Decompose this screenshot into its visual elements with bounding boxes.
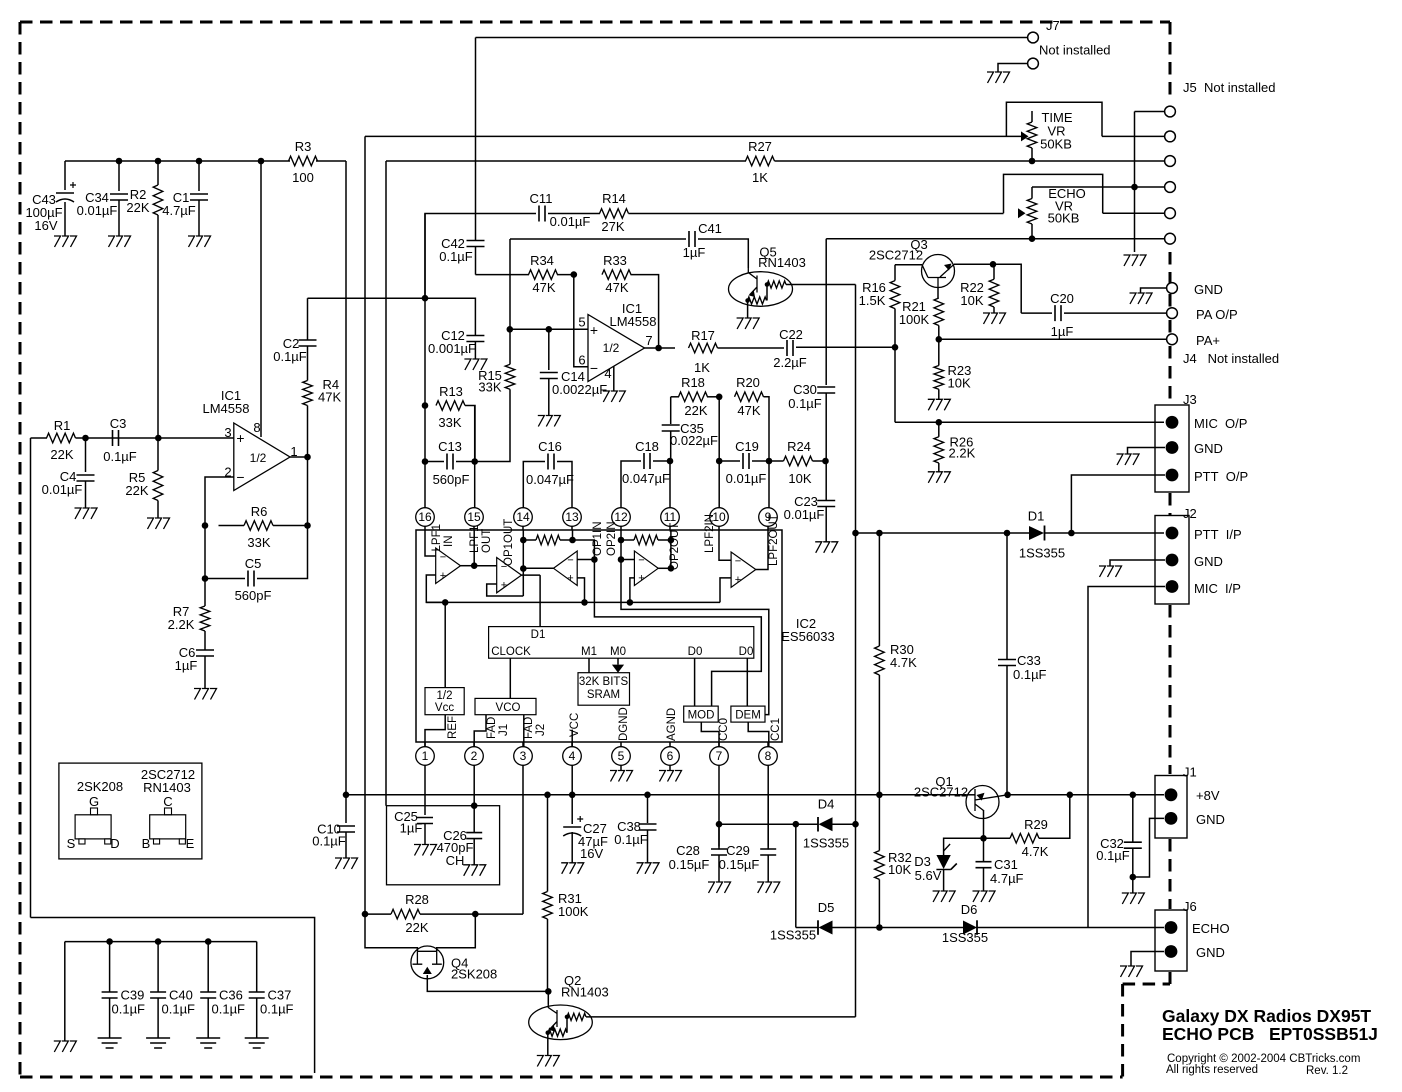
- wire rail to J1 +8V: [1008, 794, 1164, 796]
- svg-text:R27: R27: [748, 139, 772, 154]
- svg-text:1µF: 1µF: [683, 245, 706, 260]
- svg-text:2: 2: [471, 749, 478, 763]
- node PTT x855: [852, 530, 859, 537]
- wire pin16 into LPF1 -: [425, 530, 436, 556]
- capacitor C25: [417, 818, 433, 824]
- node C1 top: [196, 158, 203, 165]
- capacitor C2: [307, 298, 309, 340]
- svg-text:10K: 10K: [960, 293, 983, 308]
- svg-text:C37: C37: [268, 988, 292, 1003]
- wire IC2 pin stub: [424, 527, 426, 531]
- svg-text:0.1µF: 0.1µF: [212, 1002, 246, 1017]
- capacitor C36: [207, 942, 209, 992]
- wire Q3 base: [895, 264, 922, 266]
- ground: [708, 882, 731, 893]
- wire VCO to pin 3 FAD J2: [523, 715, 525, 747]
- capacitor C14: [548, 329, 550, 370]
- svg-text:GND: GND: [1194, 282, 1223, 297]
- IC2 pin 6: [661, 747, 680, 766]
- IC2 pin 5: [612, 747, 631, 766]
- node C38 top: [644, 792, 651, 799]
- svg-text:CC0: CC0: [718, 718, 730, 741]
- capacitor C22: [787, 340, 793, 356]
- capacitor C23: [825, 461, 827, 500]
- wire R27 to J5 pin 3: [775, 160, 1166, 162]
- svg-text:100K: 100K: [899, 312, 930, 327]
- wire pin 4 VCC stub: [571, 730, 573, 747]
- svg-text:C11: C11: [530, 191, 553, 206]
- connector J5 pin 2: [1165, 131, 1176, 142]
- svg-text:+: +: [501, 580, 507, 592]
- svg-text:4.7µF: 4.7µF: [990, 871, 1024, 886]
- node Q1 collector on rail: [1004, 792, 1011, 799]
- svg-text:4.7µF: 4.7µF: [162, 203, 196, 218]
- IC2 pin 2: [465, 747, 484, 766]
- wire D0 to DEM: [746, 658, 748, 706]
- wire R15 bottom to C13: [475, 389, 510, 461]
- wire y298 to C12: [425, 298, 475, 335]
- ground: [603, 391, 626, 402]
- wire pin13 to OP1 - node: [573, 540, 595, 560]
- IC2 internal half Vcc box: [425, 688, 464, 715]
- wire IC2 pin stub: [767, 527, 769, 531]
- wire pin11 column inside: [670, 530, 672, 540]
- wire R4 to output: [307, 406, 309, 458]
- node TIME VR bottom on R27 wire: [1029, 158, 1036, 165]
- svg-text:MOD: MOD: [688, 710, 715, 722]
- transistor Q1 2SC2712: [966, 786, 999, 819]
- svg-text:15: 15: [467, 510, 481, 524]
- wire pin 3 down to R28 node: [522, 766, 524, 915]
- wire D4 branch down to D5: [795, 824, 797, 927]
- capacitor C1: [198, 161, 200, 191]
- IC2 pin 11: [661, 508, 680, 527]
- svg-text:SRAM: SRAM: [587, 689, 620, 701]
- svg-text:C33: C33: [1017, 653, 1041, 668]
- wire VCO to pin 2 FAD J1: [474, 715, 486, 747]
- wire Q5 output to x855: [786, 284, 856, 286]
- ground: [610, 771, 633, 782]
- wire IC2 pin stub: [522, 527, 524, 531]
- resistor R33: [602, 270, 631, 280]
- wire x855 PTT to D4: [855, 533, 857, 824]
- wire C2 top to x425: [308, 297, 426, 299]
- wire pin 8 down: [767, 766, 769, 850]
- svg-text:5: 5: [618, 749, 625, 763]
- wire down to IC1 pin 8: [260, 161, 262, 437]
- ground: [737, 318, 760, 329]
- node D4 left: [716, 821, 723, 828]
- wire DEM to pin 8 CC1: [748, 722, 769, 746]
- IC2 pin 10: [710, 508, 729, 527]
- svg-text:560pF: 560pF: [235, 588, 272, 603]
- resistor R17: [689, 343, 718, 353]
- wire M0 arrow to SRAM: [617, 658, 619, 664]
- node PTT O/P join: [1068, 530, 1075, 537]
- svg-text:50KB: 50KB: [1040, 137, 1072, 152]
- wire pin9 column: [768, 461, 770, 508]
- svg-text:2SC2712: 2SC2712: [869, 248, 923, 263]
- svg-text:C19: C19: [735, 439, 759, 454]
- svg-text:C31: C31: [994, 857, 1018, 872]
- node bus T3+: [581, 599, 588, 606]
- node R30 bottom: [876, 792, 883, 799]
- wire C20 to PA O/P pin: [1064, 312, 1166, 314]
- svg-text:GND: GND: [1194, 441, 1223, 456]
- connector pin PA+: [1167, 334, 1178, 345]
- svg-text:1/2: 1/2: [437, 690, 453, 702]
- svg-text:ECHO: ECHO: [1192, 921, 1230, 936]
- wire half Vcc to pin 1 REF: [425, 715, 445, 747]
- capacitor C6: [204, 631, 206, 650]
- ground: [463, 865, 486, 876]
- svg-text:1/2: 1/2: [250, 451, 267, 465]
- svg-text:22K: 22K: [125, 483, 148, 498]
- svg-text:PA O/P: PA O/P: [1196, 307, 1238, 322]
- capacitor C40: [157, 942, 159, 992]
- svg-text:32K BITS: 32K BITS: [579, 676, 629, 688]
- svg-text:2.2K: 2.2K: [949, 446, 976, 461]
- svg-text:0.01µF: 0.01µF: [550, 214, 591, 229]
- wire Q1 emitter down: [983, 810, 985, 838]
- wire R1 left: [31, 437, 48, 439]
- svg-text:B: B: [142, 836, 151, 851]
- svg-text:16V: 16V: [34, 218, 57, 233]
- earth ground: [245, 1038, 269, 1048]
- svg-text:+: +: [236, 430, 244, 446]
- svg-text:CH: CH: [446, 853, 465, 868]
- svg-text:OP1OUT: OP1OUT: [503, 519, 515, 566]
- IC2 internal amp LPF1: [436, 548, 461, 584]
- wire pin 6 to ground: [669, 766, 671, 771]
- svg-text:S: S: [67, 836, 76, 851]
- op-amp IC1 second half: [588, 315, 645, 382]
- svg-text:C3: C3: [110, 416, 127, 431]
- wire D1 to J2 PTT I/P: [1045, 532, 1165, 534]
- node R29 right on rail: [1067, 792, 1074, 799]
- svg-text:0.15µF: 0.15µF: [719, 857, 760, 872]
- svg-text:C22: C22: [779, 327, 803, 342]
- svg-text:1/2: 1/2: [603, 341, 620, 355]
- wire pin15 column: [474, 406, 476, 508]
- connector J5 pin 3: [1165, 156, 1176, 167]
- svg-text:R28: R28: [405, 892, 429, 907]
- svg-text:−: −: [590, 360, 598, 376]
- wire y239 to J5 pin 6: [826, 238, 1165, 240]
- diode D6 1SS355: [879, 927, 963, 929]
- transistor Q5 RN1403: [729, 272, 793, 307]
- capacitor C26: [466, 833, 482, 839]
- IC2 internal DEM box: [731, 706, 765, 722]
- svg-text:0.1µF: 0.1µF: [162, 1002, 196, 1017]
- svg-text:D0: D0: [739, 646, 754, 658]
- node R16 bottom: [892, 344, 899, 351]
- svg-text:560pF: 560pF: [433, 472, 470, 487]
- svg-text:PTT O/P: PTT O/P: [1194, 469, 1248, 484]
- svg-text:0.15µF: 0.15µF: [669, 857, 710, 872]
- IC2 pin 16: [416, 508, 435, 527]
- capacitor C13: [425, 461, 444, 463]
- svg-text:0.022µF: 0.022µF: [670, 433, 718, 448]
- svg-text:47K: 47K: [605, 280, 628, 295]
- capacitor C31: [983, 838, 985, 861]
- node pin2 on box edge: [471, 802, 478, 809]
- ground: [1124, 255, 1147, 266]
- node x425 on y298 wire: [422, 295, 429, 302]
- wire IC2 pin stub: [718, 527, 720, 531]
- wire OP1 - input: [577, 559, 594, 561]
- svg-text:J1: J1: [498, 724, 510, 736]
- node IC1b + input: [507, 326, 514, 333]
- svg-text:+8V: +8V: [1196, 788, 1220, 803]
- svg-text:R20: R20: [736, 375, 760, 390]
- wire IC2 pin stub: [522, 742, 524, 747]
- IC2 pin 9: [759, 508, 778, 527]
- node bus halfVcc: [442, 599, 449, 606]
- diode D1 1SS355: [1029, 526, 1044, 540]
- svg-text:4.7K: 4.7K: [890, 655, 917, 670]
- J6 pin GND: [1165, 945, 1178, 958]
- capacitor C43: [64, 161, 66, 190]
- capacitor C4: [85, 438, 87, 472]
- svg-text:33K: 33K: [478, 380, 501, 395]
- svg-text:6: 6: [578, 353, 585, 368]
- earth ground: [98, 1038, 122, 1048]
- svg-text:J5 Not installed: J5 Not installed: [1183, 80, 1276, 95]
- wire MOD to pin 7 CC0: [701, 722, 719, 746]
- ground: [1130, 293, 1153, 304]
- wire D6 to J6 ECHO: [977, 927, 1164, 929]
- svg-text:D: D: [110, 836, 119, 851]
- svg-text:REF: REF: [447, 716, 459, 739]
- svg-text:R13: R13: [439, 384, 463, 399]
- capacitor C37: [256, 942, 258, 992]
- node D4 right: [852, 821, 859, 828]
- node ECHO VR bottom: [1029, 235, 1036, 242]
- connector J5 pin 1: [1165, 106, 1176, 117]
- ground: [973, 891, 996, 902]
- IC2 pin 7: [710, 747, 729, 766]
- svg-text:OP1IN: OP1IN: [592, 521, 604, 556]
- svg-text:47K: 47K: [318, 390, 341, 405]
- node R2/R5 at pin3 wire: [155, 435, 162, 442]
- svg-text:47K: 47K: [737, 403, 760, 418]
- svg-text:33K: 33K: [247, 535, 270, 550]
- ground: [538, 416, 561, 427]
- svg-text:0.1µF: 0.1µF: [1013, 667, 1047, 682]
- node R24/C30/C23: [822, 458, 829, 465]
- svg-text:C18: C18: [635, 439, 659, 454]
- svg-text:LPF1: LPF1: [431, 524, 443, 552]
- resistor R30: [878, 533, 880, 646]
- node T2/T3 outputs: [520, 565, 527, 572]
- svg-text:0.1µF: 0.1µF: [1096, 848, 1130, 863]
- svg-text:0.01µF: 0.01µF: [42, 482, 83, 497]
- svg-text:50KB: 50KB: [1048, 211, 1080, 226]
- ground: [1122, 893, 1145, 904]
- node C40: [155, 938, 162, 945]
- wire Q2 output to x855: [586, 1016, 856, 1018]
- wire R34 left: [475, 274, 529, 276]
- svg-text:−: −: [638, 555, 644, 567]
- wire J7 down to C42: [475, 38, 477, 241]
- ground: [983, 313, 1006, 324]
- wire D0 to MOD: [694, 658, 696, 706]
- svg-text:OUT: OUT: [481, 529, 493, 553]
- potentiometer ECHO VR: [1018, 208, 1026, 218]
- node C34 top: [116, 158, 123, 165]
- wire Q3 collector: [954, 263, 993, 265]
- wire R14 to ECHO VR wiper: [629, 213, 1004, 215]
- ground: [335, 858, 358, 869]
- node D5/R32/D6: [876, 924, 883, 931]
- capacitor C16: [523, 462, 545, 508]
- wire IC2 pin stub: [620, 742, 622, 747]
- svg-text:100K: 100K: [558, 904, 589, 919]
- resistor R15: [509, 329, 511, 364]
- svg-text:DEM: DEM: [735, 710, 761, 722]
- wire J5 pin 4 from ECHO VR top: [1032, 186, 1164, 188]
- wire pin 7 down: [718, 766, 720, 850]
- svg-text:Galaxy DX Radios DX95T: Galaxy DX Radios DX95T: [1162, 1006, 1371, 1026]
- J3 pin MIC O/P: [1166, 416, 1179, 429]
- wire x425 column: [424, 214, 426, 299]
- ground: [194, 689, 217, 700]
- diode D4 1SS355: [796, 823, 818, 825]
- resistor R27: [746, 156, 775, 166]
- svg-text:OP2IN: OP2IN: [606, 521, 618, 556]
- svg-text:0.1µF: 0.1µF: [103, 449, 137, 464]
- ground: [188, 236, 211, 247]
- J3 pin PTT O/P: [1166, 469, 1179, 482]
- wire R2 bottom to IC1 pin3 node: [157, 215, 159, 438]
- node D4/D5 branch: [793, 821, 800, 828]
- node C14 top: [546, 326, 553, 333]
- svg-text:14: 14: [516, 510, 530, 524]
- wire +8V bus top left: [65, 160, 290, 162]
- connector J6: [1155, 910, 1187, 971]
- IC2 internal delay block: [489, 627, 754, 659]
- IC2 pin 12: [612, 508, 631, 527]
- resistor R16: [894, 265, 896, 281]
- svg-text:22K: 22K: [405, 920, 428, 935]
- node C36: [205, 938, 212, 945]
- wire OP2 apex to pin11 column: [658, 567, 671, 569]
- wire LPF1 + input to bus: [426, 575, 445, 602]
- wire R13 right: [465, 406, 475, 462]
- wire C5 right: [257, 526, 308, 579]
- svg-text:8: 8: [253, 420, 260, 435]
- svg-text:C20: C20: [1050, 291, 1074, 306]
- node Q3/R22: [990, 261, 997, 268]
- node C19 right: [766, 458, 773, 465]
- IC2 internal VCO box: [475, 698, 536, 714]
- node C4: [82, 435, 89, 442]
- wire J5 pin 2: [1102, 135, 1164, 137]
- IC2 internal amp LPF2: [731, 552, 756, 587]
- IC2 internal feedback resistor 1: [536, 535, 560, 545]
- capacitor C39: [109, 942, 111, 992]
- node R28 right: [472, 911, 479, 918]
- svg-text:LPF1: LPF1: [469, 526, 481, 554]
- svg-text:2.2µF: 2.2µF: [773, 355, 807, 370]
- wire pin14 column inside: [522, 530, 524, 575]
- wire pin10 column: [718, 461, 720, 508]
- wire R16 node down: [894, 347, 896, 422]
- capacitor C20: [1055, 305, 1061, 321]
- ground: [75, 508, 98, 519]
- svg-text:+: +: [638, 573, 644, 585]
- wire IC1b pin 4 to ground: [613, 366, 615, 391]
- connector J5 pin 6: [1165, 233, 1176, 244]
- svg-text:+: +: [735, 574, 741, 586]
- wire TIME VR wiper from corner x365: [365, 135, 1021, 137]
- svg-text:FAD: FAD: [523, 717, 535, 739]
- IC2 pin 1: [416, 747, 435, 766]
- wire PTT O/P down to PTT node: [1071, 475, 1165, 533]
- wire output down to R6: [307, 457, 309, 526]
- wire PTT to D1: [856, 532, 1030, 534]
- wire LPF2 out to pin 9: [756, 530, 768, 570]
- wire R27 left: [386, 160, 746, 162]
- wire pin 4 to rail: [571, 766, 573, 795]
- svg-text:C29: C29: [726, 843, 750, 858]
- svg-text:CC1: CC1: [770, 718, 782, 741]
- node R28 left: [362, 911, 369, 918]
- wire IC1b pin 6: [574, 275, 588, 367]
- svg-text:C41: C41: [698, 221, 722, 236]
- svg-text:MIC O/P: MIC O/P: [1194, 416, 1247, 431]
- svg-text:1SS355: 1SS355: [803, 836, 849, 851]
- J3 pin GND: [1166, 441, 1179, 454]
- svg-text:2.2K: 2.2K: [168, 617, 195, 632]
- capacitor C11: [539, 206, 545, 222]
- wire J6 GND: [1131, 952, 1164, 967]
- svg-text:CLOCK: CLOCK: [491, 646, 531, 658]
- wire IC2 pin stub: [718, 742, 720, 747]
- wire IC2 pin stub: [424, 742, 426, 747]
- svg-text:5: 5: [578, 315, 585, 330]
- wire C11 to R14: [548, 213, 600, 215]
- svg-text:DGND: DGND: [618, 707, 630, 741]
- resistor R22: [993, 264, 995, 279]
- svg-text:GND: GND: [1194, 554, 1223, 569]
- svg-text:M1: M1: [581, 646, 597, 658]
- connector J7 pin 1: [1028, 32, 1039, 43]
- wire J1 GND to C32 ground: [1133, 818, 1164, 877]
- node bus-pin4: [1131, 184, 1138, 191]
- node Q1 emitter/R29/D3/C31: [980, 835, 987, 842]
- resistor R2: [157, 161, 159, 185]
- ground: [147, 518, 170, 529]
- wire long vertical x386 down to C25 box: [385, 161, 387, 806]
- wire LPF2 + from bus: [720, 578, 731, 603]
- svg-text:0.1µF: 0.1µF: [260, 1002, 294, 1017]
- svg-text:J1: J1: [1183, 765, 1197, 780]
- wire pin 2 down to C26: [473, 766, 475, 833]
- svg-text:D3: D3: [914, 854, 931, 869]
- capacitor C41: [689, 231, 695, 247]
- ground: [537, 1056, 560, 1067]
- svg-text:R14: R14: [602, 191, 626, 206]
- ground: [637, 863, 660, 874]
- capacitor C3: [113, 430, 119, 446]
- svg-text:VCC: VCC: [569, 713, 581, 737]
- svg-text:0.01µF: 0.01µF: [77, 203, 118, 218]
- node R18/R20: [716, 394, 723, 401]
- wire J5 ground bus: [1134, 112, 1136, 253]
- svg-text:22K: 22K: [126, 200, 149, 215]
